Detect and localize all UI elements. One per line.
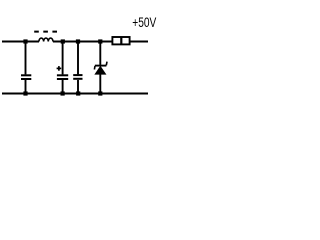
svg-text:+50V: +50V — [132, 15, 156, 30]
